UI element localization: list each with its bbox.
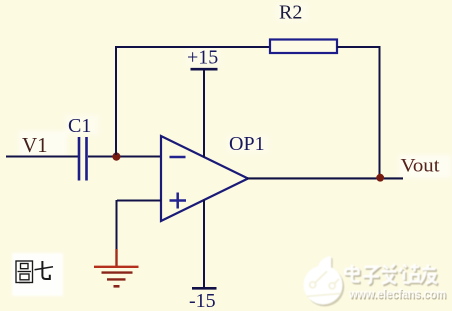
svg-text:www.elecfans.com: www.elecfans.com — [348, 287, 446, 301]
svg-text:-15: -15 — [189, 290, 216, 311]
node junction at inverting input — [112, 153, 120, 161]
ground — [94, 249, 139, 286]
figure caption 圖七 — [16, 261, 33, 283]
resistor R2 — [270, 40, 337, 54]
wire input V1 to C1 — [6, 156, 78, 158]
node junction at output — [376, 174, 384, 182]
wire non-inverting input — [117, 200, 161, 202]
svg-text:C1: C1 — [68, 115, 91, 137]
power +15 pin — [191, 69, 218, 157]
svg-text:OP1: OP1 — [229, 133, 265, 155]
wire output — [247, 177, 403, 179]
op-amp OP1 — [161, 136, 248, 221]
text halo patches — [19, 3, 451, 178]
wire feedback vertical right — [379, 46, 381, 178]
capacitor C1 — [79, 137, 87, 181]
svg-text:+15: +15 — [187, 47, 218, 69]
wire feedback vertical left — [115, 46, 117, 155]
white label patch — [12, 253, 63, 296]
op-amp minus pin symbol — [170, 156, 186, 159]
watermark text 电子发烧友 (approximate strokes) — [347, 266, 439, 286]
op-amp plus pin symbol — [170, 193, 187, 209]
power -15 pin — [192, 200, 217, 289]
wire C1 to op-amp inverting input — [88, 156, 161, 158]
watermark logo circle — [304, 256, 345, 306]
svg-text:V1: V1 — [22, 133, 48, 157]
wire ground drop — [116, 200, 118, 250]
svg-text:R2: R2 — [279, 2, 302, 24]
svg-text:Vout: Vout — [401, 157, 441, 177]
wire feedback top left segment — [115, 46, 270, 48]
wire feedback top right segment — [337, 46, 380, 48]
